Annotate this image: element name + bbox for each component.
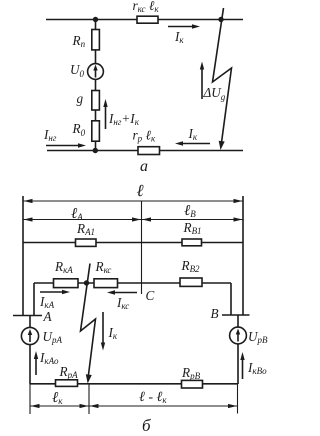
wire left outer vertical bbox=[22, 196, 24, 316]
resistor RкА bbox=[54, 279, 79, 288]
wire B source to bottom bbox=[237, 344, 239, 384]
resistor rр lк (bottom) bbox=[138, 147, 160, 155]
lightning bolt fault (figure b) bbox=[81, 264, 96, 378]
source UрВ bbox=[230, 327, 247, 344]
arrow IкАо (up) bbox=[35, 355, 37, 375]
wire left vertical branch bbox=[95, 20, 97, 151]
center extension line / node C line bbox=[141, 201, 143, 294]
svg-text:б: б bbox=[142, 416, 151, 435]
arrow IкВо (up) bbox=[242, 356, 244, 379]
source UрА bbox=[21, 327, 38, 344]
arrow dUg (up) bbox=[201, 66, 203, 99]
resistor R0 bbox=[92, 121, 100, 141]
resistor RрВ bbox=[182, 380, 203, 388]
svg-text:а: а bbox=[140, 158, 148, 175]
resistor Rп bbox=[92, 30, 100, 50]
resistor rкс lк (top) bbox=[137, 16, 158, 23]
dimension lA bbox=[23, 219, 142, 221]
arrow Iкс (left) bbox=[112, 292, 137, 294]
wire inner left vertical bbox=[33, 283, 35, 316]
wire inner horizontal bbox=[34, 282, 231, 284]
wire A source to bottom bbox=[29, 345, 31, 385]
resistor RВ2 bbox=[180, 278, 202, 286]
dimension l-lк bbox=[89, 405, 238, 407]
wire right outer vertical bbox=[242, 196, 244, 315]
wire stub B bar to source bbox=[237, 315, 239, 328]
arrow Iк (top, right) bbox=[168, 26, 195, 28]
dimension lк bbox=[30, 405, 89, 407]
wire inner right vertical bbox=[230, 283, 232, 315]
lightning bolt fault (figure a) bbox=[213, 8, 232, 144]
node junction top-right bbox=[218, 17, 223, 22]
arrow Iк fault current (down) bbox=[102, 312, 104, 346]
wire stub A bar to source bbox=[29, 316, 31, 329]
node B busbar bbox=[222, 314, 250, 316]
wire top horizontal bbox=[46, 19, 243, 21]
resistor g bbox=[92, 91, 100, 111]
svg-text:C: C bbox=[146, 288, 155, 303]
svg-text:g: g bbox=[77, 91, 84, 106]
arrow IкА (right) bbox=[40, 291, 65, 293]
wire bottom of figure b bbox=[30, 383, 238, 385]
resistor RА1 bbox=[76, 239, 97, 246]
node junction top-left bbox=[93, 17, 98, 22]
svg-text:A: A bbox=[43, 309, 53, 324]
dimension extension left bbox=[29, 384, 31, 414]
svg-text:ℓ: ℓ bbox=[137, 181, 144, 200]
node junction bottom-left bbox=[93, 148, 98, 153]
node junction fault point bbox=[84, 280, 89, 285]
wire bottom horizontal bbox=[47, 150, 243, 152]
resistor RВ1 bbox=[182, 239, 202, 246]
arrow Iнг+Iк (up) bbox=[105, 103, 107, 129]
source U0 bbox=[88, 64, 104, 80]
resistor Rкс bbox=[94, 279, 118, 288]
wire top of figure b bbox=[23, 242, 243, 244]
dimension extension right bbox=[237, 384, 239, 414]
dimension extension middle bbox=[88, 384, 90, 414]
resistor RрА bbox=[56, 380, 78, 387]
svg-text:B: B bbox=[211, 306, 219, 321]
dimension l bbox=[23, 200, 243, 202]
node A busbar bbox=[13, 315, 42, 317]
dimension lB bbox=[142, 219, 244, 221]
